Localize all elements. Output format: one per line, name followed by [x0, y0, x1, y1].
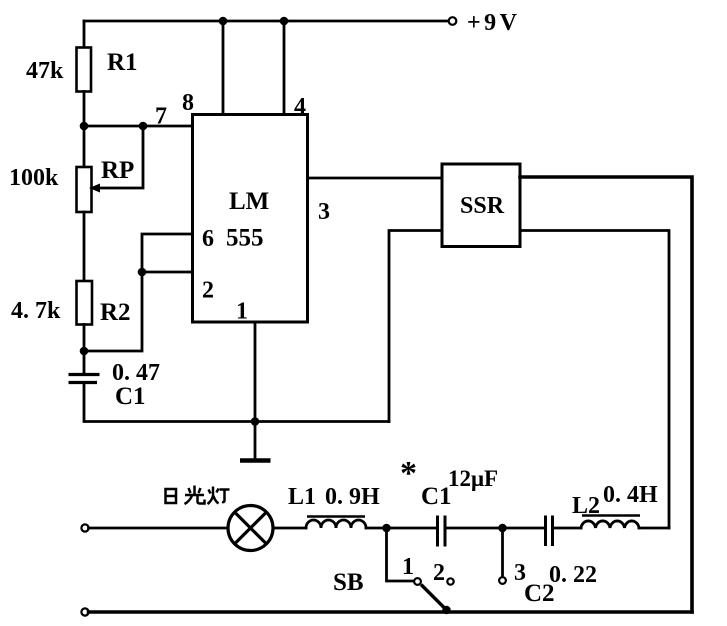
svg-text:SB: SB [333, 569, 364, 596]
capacitor C2 (0.22) [546, 516, 553, 547]
node junction at pin7 wire left [80, 122, 89, 131]
wire to lamp [89, 527, 229, 530]
svg-text:8: 8 [182, 90, 194, 116]
wire pin8 vertical [222, 21, 225, 115]
ground [240, 422, 271, 461]
svg-text:0. 4H: 0. 4H [603, 482, 658, 508]
terminal lamp line left [81, 524, 88, 531]
svg-text:47k: 47k [26, 58, 64, 84]
resistor R2 [77, 281, 93, 325]
svg-text:L1: L1 [288, 484, 316, 510]
node junction pin2 [138, 268, 147, 277]
wire pin4 vertical [283, 21, 286, 115]
inductor L2 [581, 516, 640, 529]
switch SB [387, 528, 454, 614]
node junction contact3 branch [498, 524, 507, 533]
svg-text:4: 4 [294, 94, 306, 120]
svg-text:555: 555 [226, 225, 264, 252]
svg-text:L2: L2 [572, 493, 600, 519]
svg-text:3: 3 [318, 199, 330, 225]
+9V terminal [449, 17, 457, 25]
lamp (fluorescent) [228, 506, 273, 551]
wire C1 to C2 [447, 527, 545, 530]
wire lamp to L1 [273, 527, 306, 530]
wire pin 1 down [254, 322, 257, 422]
svg-text:SSR: SSR [460, 193, 505, 219]
svg-text:LM: LM [229, 188, 269, 215]
node junction wiper tap [139, 122, 148, 131]
contact 3 terminal [499, 577, 506, 584]
wire left rail to R1 [83, 21, 86, 48]
terminal bottom line left [81, 608, 88, 615]
svg-text:4. 7k: 4. 7k [11, 298, 61, 324]
svg-text:0. 9H: 0. 9H [325, 484, 380, 510]
wire RP to R2 [83, 212, 86, 281]
wire SSR right top to right rail [520, 177, 692, 612]
resistor R1 [77, 48, 92, 92]
svg-text:R2: R2 [100, 299, 131, 326]
SSR module [442, 164, 520, 247]
svg-text:100k: 100k [9, 165, 59, 191]
svg-text:0. 22: 0. 22 [549, 562, 597, 588]
svg-text:*: * [400, 455, 417, 492]
capacitor C1 (0.47) [69, 375, 100, 383]
inductor L1 [306, 517, 366, 529]
node junction pin2/6 branch [80, 347, 89, 356]
op-amp style block: timer LM555 U1 [193, 115, 308, 323]
wire C1 down and to ground line [84, 383, 389, 422]
svg-text:7: 7 [155, 104, 167, 130]
wire bottom line [89, 610, 693, 614]
node junction SB branch [382, 524, 391, 533]
wire L1 to C1 cap [366, 527, 436, 530]
svg-text:C1: C1 [115, 383, 146, 410]
potentiometer RP [77, 126, 144, 212]
node junction at ground [251, 417, 260, 426]
wire SSR lower-left to ground line [389, 231, 442, 422]
svg-text:2: 2 [433, 560, 445, 586]
wire C2 to L2 [554, 527, 581, 530]
svg-text:1: 1 [402, 554, 414, 580]
svg-text:RP: RP [101, 157, 134, 184]
wire R1 to RP [83, 92, 86, 168]
node junction on rail (pin4) [280, 17, 289, 26]
wire contact 3 [501, 528, 504, 577]
svg-text:2: 2 [202, 278, 214, 304]
svg-text:1: 1 [236, 299, 248, 325]
node junction on rail (pin8) [219, 17, 228, 26]
svg-text:6: 6 [202, 226, 214, 252]
wire R2 to C1 [83, 325, 86, 375]
wire pin 3 to SSR [308, 177, 443, 180]
capacitor C1 (12uF) [438, 516, 446, 547]
svg-text:R1: R1 [107, 49, 138, 76]
wire +9V top rail [84, 20, 449, 23]
svg-text:C1: C1 [421, 483, 452, 510]
svg-text:12μF: 12μF [448, 466, 498, 491]
lamp label 日光灯 [166, 486, 230, 505]
wire pin 7 [84, 125, 193, 128]
wire L2 to rail [639, 527, 669, 530]
svg-text:+9V: +9V [467, 10, 521, 36]
wire SSR right lower to L2 output rail [520, 231, 669, 529]
wire branch to pins 6 and 2 [84, 234, 193, 351]
